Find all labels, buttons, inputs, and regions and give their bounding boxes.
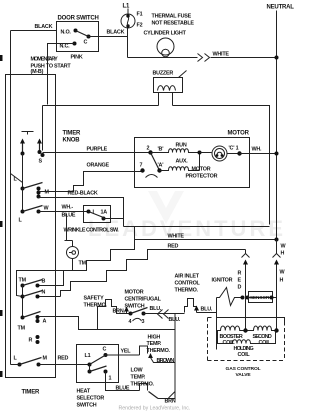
svg-text:MOTOR: MOTOR — [228, 131, 250, 137]
wire yellow C to high temp — [106, 354, 140, 356]
svg-text:R: R — [29, 338, 33, 344]
wire gas valve top — [217, 318, 285, 322]
coil SECOND — [246, 326, 277, 331]
svg-text:C: C — [103, 347, 107, 353]
wire white + staircase A — [17, 240, 277, 297]
svg-text:3: 3 — [142, 319, 145, 325]
svg-text:N.O.: N.O. — [61, 30, 72, 36]
wire blue with disconnect arrows — [144, 313, 168, 315]
svg-text:THERMO.: THERMO. — [147, 348, 171, 354]
timer motor TM — [72, 241, 74, 247]
svg-text:TIMER: TIMER — [22, 390, 41, 396]
svg-text:TM: TM — [18, 326, 26, 332]
svg-text:SENSOR: SENSOR — [250, 295, 270, 300]
wire black top left — [11, 30, 57, 32]
wire L column — [22, 154, 24, 189]
switch timer W row — [22, 189, 24, 212]
motor protector — [200, 152, 212, 154]
svg-text:A: A — [43, 319, 47, 325]
motor box U1 — [135, 138, 250, 188]
svg-text:'A': 'A' — [158, 163, 164, 169]
svg-text:Rendered by LeadVenture, Inc.: Rendered by LeadVenture, Inc. — [119, 406, 191, 412]
wire purple S to motor — [43, 152, 151, 154]
svg-text:WH.: WH. — [252, 147, 263, 153]
wire neutral vertical upper — [276, 11, 278, 251]
svg-text:BLACK: BLACK — [35, 24, 53, 30]
svg-text:L1: L1 — [85, 353, 91, 359]
wire red vertical with disconnect — [245, 250, 247, 254]
svg-text:THERMO.: THERMO. — [84, 303, 108, 309]
wire A contact to burner circuit — [39, 317, 176, 330]
svg-text:DOOR SWITCH: DOOR SWITCH — [58, 16, 99, 22]
wire buzzer line to white jog — [124, 226, 270, 228]
svg-text:'C' 1: 'C' 1 — [229, 146, 239, 152]
svg-text:H: H — [281, 251, 285, 257]
svg-text:THERMO.: THERMO. — [131, 382, 155, 388]
wrinkle control switch — [84, 206, 111, 223]
wire pink from N.C. — [48, 44, 75, 105]
svg-text:COIL: COIL — [238, 352, 251, 358]
watermark — [88, 191, 286, 241]
svg-text:BUZZER: BUZZER — [153, 71, 174, 77]
svg-text:N: N — [42, 290, 46, 296]
wire lamp to neutral with disconnect — [128, 57, 198, 59]
svg-text:PROTECTOR: PROTECTOR — [186, 174, 218, 180]
svg-text:THERMO.: THERMO. — [175, 288, 199, 294]
coil HOLDING — [218, 331, 276, 344]
svg-text:B: B — [42, 279, 46, 285]
sensor — [248, 297, 277, 299]
svg-text:R: R — [238, 271, 242, 277]
svg-text:CONTROL: CONTROL — [175, 281, 201, 287]
gas control valve dashed box — [208, 318, 285, 361]
svg-text:YEL: YEL — [121, 349, 132, 355]
svg-text:AIR INLET: AIR INLET — [175, 274, 200, 280]
svg-text:F1: F1 — [137, 12, 143, 18]
svg-text:F2: F2 — [137, 23, 143, 29]
wire buzzer line — [43, 105, 159, 107]
svg-text:M: M — [43, 356, 48, 362]
wire black from C to fuse — [89, 28, 128, 37]
svg-text:H: H — [280, 278, 284, 284]
svg-text:ORANGE: ORANGE — [87, 163, 110, 169]
svg-text:TEMP.: TEMP. — [131, 375, 146, 381]
svg-text:GAS CONTROL: GAS CONTROL — [226, 366, 261, 372]
svg-text:PURPLE: PURPLE — [87, 147, 108, 153]
wire orange M to motor aux — [39, 172, 143, 192]
svg-text:RUN: RUN — [176, 143, 187, 149]
door switch DS — [57, 22, 99, 52]
svg-text:MOMENTARY: MOMENTARY — [31, 57, 59, 63]
svg-text:SWITCH: SWITCH — [77, 403, 97, 409]
wire red-black — [39, 198, 124, 227]
node junction white/neutral — [275, 56, 279, 60]
svg-text:1: 1 — [109, 376, 112, 382]
svg-text:SAFETY: SAFETY — [84, 296, 105, 302]
svg-text:2: 2 — [147, 146, 150, 152]
heat selector switch — [77, 345, 119, 383]
svg-text:RED-BLACK: RED-BLACK — [68, 191, 98, 197]
wire 1A out — [104, 218, 124, 220]
wire N row — [39, 296, 61, 298]
svg-text:MOTOR: MOTOR — [125, 290, 144, 296]
switch timer A row — [21, 316, 25, 320]
svg-text:BLUE: BLUE — [62, 213, 76, 219]
svg-text:RED: RED — [168, 244, 179, 250]
svg-text:VALVE: VALVE — [236, 372, 252, 378]
svg-text:IGNITOR: IGNITOR — [212, 278, 233, 284]
svg-text:BRN: BRN — [165, 399, 176, 405]
svg-text:MOTOR: MOTOR — [192, 167, 211, 173]
switch timer N row — [22, 286, 24, 318]
svg-text:AUX.: AUX. — [176, 159, 189, 165]
switch push-to-start — [22, 131, 34, 133]
svg-text:SELECTOR: SELECTOR — [77, 396, 105, 402]
wire ignitor drop — [216, 298, 218, 350]
svg-text:N.C.: N.C. — [60, 44, 71, 50]
svg-text:WHITE: WHITE — [213, 52, 230, 58]
coil BOOSTER — [217, 326, 246, 331]
svg-text:HEAT: HEAT — [77, 389, 91, 395]
svg-text:7: 7 — [140, 163, 143, 169]
svg-text:KNOB: KNOB — [63, 138, 81, 144]
svg-text:TIMER: TIMER — [63, 131, 82, 137]
svg-text:LOW: LOW — [131, 368, 144, 374]
svg-text:'B': 'B' — [158, 147, 164, 153]
svg-text:TM: TM — [19, 278, 27, 284]
svg-text:PINK: PINK — [71, 55, 83, 61]
coil AUX — [160, 167, 200, 171]
svg-text:BLU.: BLU. — [201, 307, 213, 313]
wire S feed — [42, 106, 44, 151]
coil RUN — [151, 149, 200, 153]
svg-text:BROWN: BROWN — [157, 358, 175, 364]
svg-text:WRINKLE CONTROL SW.: WRINKLE CONTROL SW. — [64, 228, 120, 234]
wire motor to neutral — [240, 153, 277, 155]
svg-text:TEMP.: TEMP. — [147, 341, 162, 347]
wire red timer to heat selector — [39, 364, 90, 366]
svg-text:BLU.: BLU. — [169, 317, 181, 323]
svg-text:C: C — [84, 40, 88, 46]
edge marks — [0, 55, 3, 61]
svg-text:WH.-: WH.- — [62, 205, 74, 211]
wire left rail vertical — [10, 31, 12, 365]
wire W to wrinkle sw — [39, 211, 89, 213]
svg-text:CENTRIFUGAL: CENTRIFUGAL — [125, 297, 162, 303]
svg-text:BLUE: BLUE — [116, 386, 130, 392]
svg-text:4: 4 — [129, 319, 132, 325]
svg-text:RED: RED — [58, 356, 69, 362]
svg-text:BLACK: BLACK — [107, 30, 125, 36]
svg-text:D: D — [238, 285, 242, 291]
wire stair A to B contact — [38, 271, 64, 286]
svg-text:CYLINDER LIGHT: CYLINDER LIGHT — [144, 31, 187, 37]
svg-text:M: M — [45, 190, 50, 196]
svg-text:THERMAL FUSE: THERMAL FUSE — [152, 14, 192, 20]
svg-text:SWITCH: SWITCH — [125, 304, 145, 310]
svg-text:HIGH: HIGH — [148, 335, 161, 341]
timer box — [6, 75, 56, 378]
svg-text:NOT RESETABLE: NOT RESETABLE — [152, 21, 195, 27]
wire white vertical with disconnect — [276, 240, 278, 254]
wire red + staircase B — [61, 250, 246, 297]
svg-text:1A: 1A — [101, 210, 108, 216]
svg-text:TM: TM — [79, 261, 87, 267]
svg-text:NEUTRAL: NEUTRAL — [267, 5, 295, 11]
wire blue heat selector to low temp — [106, 372, 140, 391]
svg-text:WHITE: WHITE — [168, 234, 185, 240]
svg-text:L1: L1 — [123, 4, 130, 10]
